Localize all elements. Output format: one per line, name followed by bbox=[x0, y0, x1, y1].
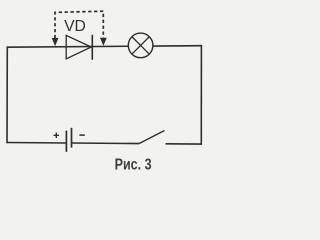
wire: left side of loop bbox=[6, 46, 8, 143]
arrowhead right (points down to wire) bbox=[100, 38, 107, 46]
diode VD: triangle anode bbox=[66, 35, 91, 58]
svg-text:Рис. 3: Рис. 3 bbox=[115, 156, 152, 173]
wire: bottom left segment to battery bbox=[7, 142, 66, 145]
wire: top right segment lamp to corner bbox=[153, 45, 202, 47]
switch S (open blade) bbox=[139, 131, 165, 144]
lamp HL: cross stroke 1 bbox=[132, 37, 149, 54]
battery GB: minus sign bbox=[79, 134, 84, 136]
wire: top side of loop bbox=[7, 45, 128, 48]
wire: right side of loop bbox=[200, 45, 202, 145]
arrowhead left (points down to wire) bbox=[52, 38, 59, 46]
lamp HL: circle bbox=[128, 33, 153, 58]
lamp HL: cross stroke 2 bbox=[132, 37, 149, 54]
wire: bottom segment battery to switch bbox=[72, 142, 140, 145]
battery GB: left plate bbox=[65, 131, 67, 152]
diode VD: cathode bar bbox=[91, 35, 93, 60]
svg-text:VD: VD bbox=[64, 18, 86, 35]
wire: bottom right segment switch to corner bbox=[166, 143, 202, 145]
battery GB: plus sign bbox=[54, 133, 59, 138]
dashed callout box around diode bbox=[55, 11, 103, 38]
battery GB: right plate bbox=[71, 128, 73, 148]
